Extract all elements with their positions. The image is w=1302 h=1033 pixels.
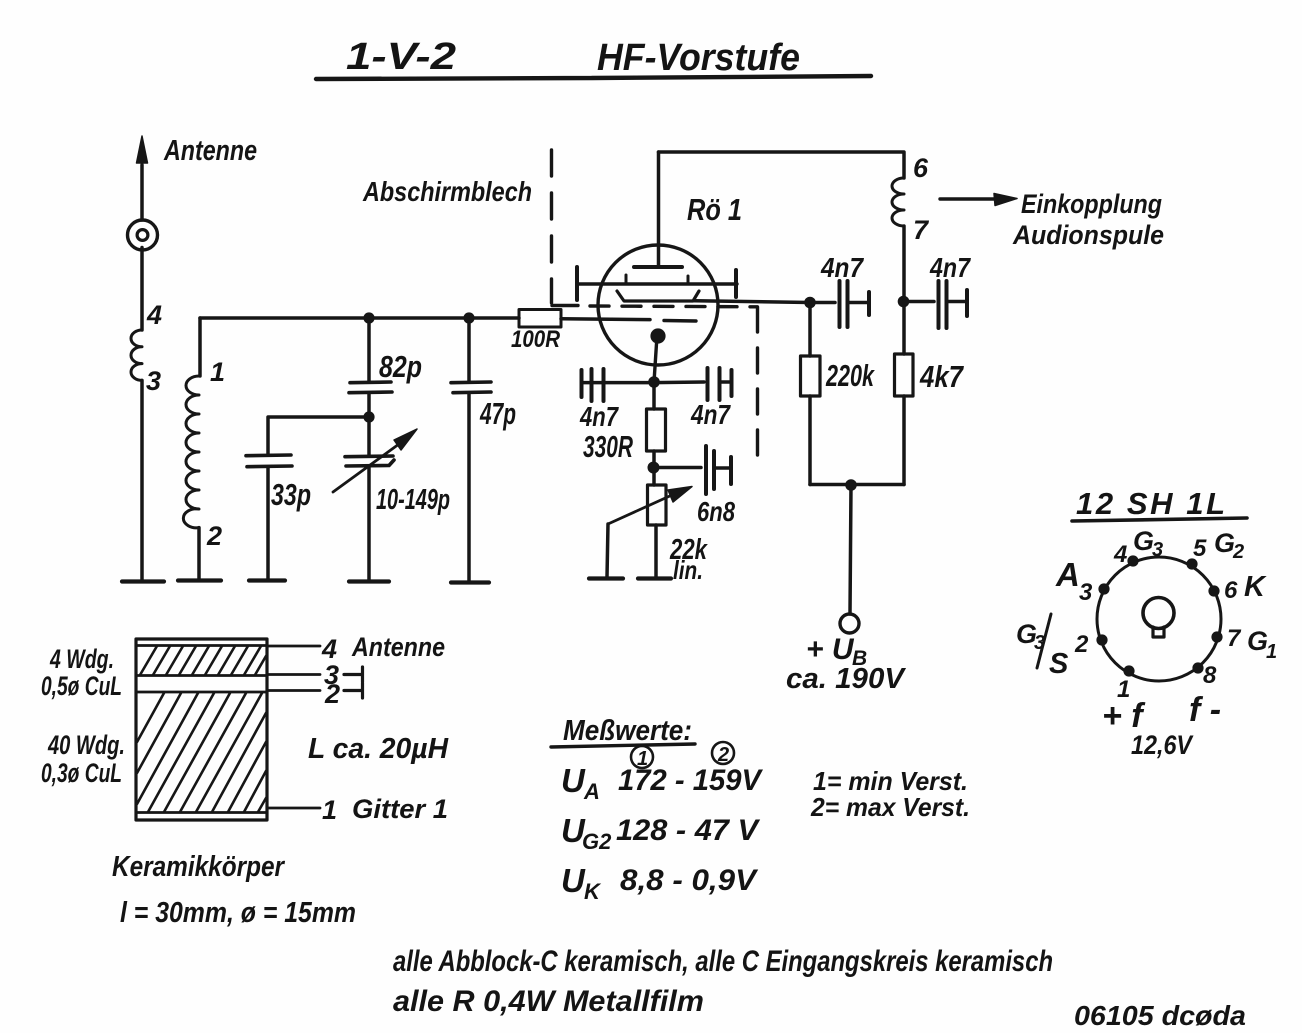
variable capacitor 10-149p — [367, 417, 371, 456]
svg-text:2: 2 — [717, 744, 729, 766]
wire varcap to ground — [367, 466, 371, 581]
audion coil L2 — [892, 178, 904, 226]
svg-text:2: 2 — [1074, 631, 1089, 658]
pin label 6 K — [1224, 571, 1267, 604]
svg-text:K: K — [584, 879, 602, 904]
title HF-Vorstufe — [597, 37, 800, 79]
svg-text:HF-Vorstufe: HF-Vorstufe — [597, 37, 800, 79]
svg-text:6n8: 6n8 — [697, 496, 735, 527]
node 47p junction — [463, 312, 474, 323]
svg-text:8,8 - 0,9V: 8,8 - 0,9V — [620, 864, 759, 897]
tube U1 Ro1 envelope — [598, 245, 718, 365]
svg-text:A: A — [1055, 556, 1080, 593]
svg-text:U: U — [561, 762, 586, 799]
label 4 Wdg 0,5 CuL — [49, 644, 114, 674]
svg-text:6: 6 — [1224, 577, 1238, 604]
svg-text:4n7: 4n7 — [579, 401, 619, 432]
Messwerte heading — [563, 715, 692, 747]
wire 47p to ground — [467, 393, 471, 582]
coil L1b wire top — [198, 318, 202, 376]
cathode lead down — [654, 336, 657, 382]
svg-text:Audionspule: Audionspule — [1012, 220, 1164, 250]
bottom join wire — [810, 483, 904, 487]
main wire top bus — [200, 316, 519, 320]
svg-text:f -: f - — [1189, 691, 1221, 729]
doc number — [1074, 1000, 1246, 1031]
tap 3 line — [267, 673, 320, 676]
capacitor 4n7 out-right — [904, 300, 935, 304]
g2 tick left — [625, 275, 628, 284]
top wire anode to coil — [659, 152, 905, 178]
screen grid g2 line — [577, 282, 737, 285]
svg-text:5: 5 — [1193, 535, 1207, 562]
svg-text:7: 7 — [1227, 625, 1242, 652]
tap 2 label — [324, 679, 340, 709]
antenna connector circle — [128, 220, 158, 250]
former line under band1 — [136, 674, 267, 677]
svg-text:0,3ø CuL: 0,3ø CuL — [41, 758, 122, 788]
wire to UB terminal — [850, 485, 851, 614]
pin 7 dot — [1211, 631, 1222, 642]
einkopplung arrow — [940, 197, 998, 200]
former line above band2 — [136, 691, 267, 694]
pin label 1 — [1117, 676, 1130, 703]
svg-text:33p: 33p — [271, 477, 311, 512]
pin 6 dot — [1208, 585, 1219, 596]
g3 line with slanted ends — [617, 291, 699, 301]
former top inner line — [136, 644, 267, 647]
capacitor 6n8 — [654, 466, 702, 470]
tap 2 line — [267, 689, 320, 692]
svg-text:40 Wdg.: 40 Wdg. — [47, 730, 125, 760]
svg-text:3: 3 — [146, 366, 161, 396]
node UB — [845, 479, 857, 491]
pin 5 dot — [1186, 558, 1197, 569]
note line 1 — [393, 945, 1053, 978]
row UA — [561, 762, 764, 804]
pin label 2 — [1074, 631, 1089, 658]
label 2 — [206, 521, 222, 551]
svg-text:U: U — [561, 862, 586, 899]
socket center hole — [1143, 598, 1174, 629]
svg-text:172 - 159V: 172 - 159V — [618, 764, 764, 797]
node output right — [898, 296, 910, 308]
label 1 — [210, 357, 225, 387]
G3/S slash — [1037, 614, 1051, 668]
tap 1 label Gitter1 — [322, 794, 448, 825]
antenna arrow — [141, 146, 144, 165]
svg-text:10-149p: 10-149p — [376, 484, 450, 516]
svg-text:+ U: + U — [806, 633, 855, 666]
svg-text:82p: 82p — [379, 349, 422, 384]
wire 330R to node — [652, 451, 656, 467]
g2 tick right — [687, 276, 690, 284]
pin label 7 G1 — [1227, 625, 1277, 663]
note line 2 — [393, 985, 704, 1018]
antenna coil L1a — [131, 330, 142, 380]
svg-text:alle Abblock-C keramisch, alle: alle Abblock-C keramisch, alle C Eingang… — [393, 945, 1053, 978]
svg-text:G: G — [1133, 526, 1154, 556]
label Einkopplung — [1021, 189, 1162, 219]
label 7 — [913, 215, 930, 245]
svg-text:G2: G2 — [582, 829, 612, 854]
socket title underline — [1072, 518, 1247, 521]
pin label A 3 — [1055, 556, 1093, 606]
svg-text:12,6V: 12,6V — [1131, 730, 1194, 760]
pin label G3/S — [1016, 619, 1069, 680]
svg-text:L ca. 20µH: L ca. 20µH — [308, 733, 449, 765]
node below 82p — [363, 411, 374, 422]
resistor 330R — [652, 382, 656, 409]
svg-text:Antenne: Antenne — [351, 632, 445, 662]
svg-text:128 - 47 V: 128 - 47 V — [616, 814, 761, 847]
capacitor 4n7 cathode-right — [706, 368, 710, 400]
label 3 — [146, 366, 161, 396]
socket circle — [1097, 557, 1221, 681]
svg-text:G: G — [1214, 528, 1235, 558]
wire coil down — [902, 226, 906, 301]
svg-text:1: 1 — [1266, 641, 1277, 663]
wiper tail wire — [607, 524, 608, 577]
svg-text:Antenne: Antenne — [163, 135, 257, 167]
svg-text:alle R 0,4W Metallfilm: alle R 0,4W Metallfilm — [393, 985, 704, 1018]
svg-text:Keramikkörper: Keramikkörper — [112, 851, 285, 883]
socket title 12 SH 1L — [1076, 486, 1225, 521]
svg-text:G: G — [1247, 626, 1268, 656]
wire cathode bus — [582, 380, 704, 384]
ground coil — [178, 578, 221, 582]
shield dashed corner — [552, 304, 578, 307]
former bottom inner line — [136, 811, 267, 814]
svg-text:12 SH 1L: 12 SH 1L — [1076, 486, 1225, 521]
svg-text:1: 1 — [322, 795, 337, 825]
anode plate — [634, 265, 682, 269]
label L ca 20uH — [308, 733, 449, 765]
svg-text:3: 3 — [1152, 539, 1163, 561]
shield dashed left vertical — [550, 150, 553, 303]
label 12,6V — [1131, 730, 1194, 760]
ground varcap — [349, 579, 389, 583]
g1 dash inside tube — [664, 319, 696, 323]
pin label 8 — [1203, 662, 1217, 689]
resistor 100R — [519, 310, 561, 328]
shield dashed right vertical — [756, 307, 759, 457]
pin 3 dot — [1098, 583, 1109, 594]
svg-text:ca. 190V: ca. 190V — [786, 663, 907, 695]
svg-text:6: 6 — [913, 153, 929, 183]
svg-text:4n7: 4n7 — [820, 252, 864, 283]
svg-text:l = 30mm, ø = 15mm: l = 30mm, ø = 15mm — [120, 897, 356, 929]
capacitor 4n7 out-left — [810, 301, 835, 305]
label 6 — [913, 153, 929, 183]
anode lead wire — [657, 152, 661, 267]
potentiometer 22k — [652, 468, 656, 486]
svg-text:2: 2 — [324, 679, 340, 709]
wire to 33p — [268, 417, 369, 455]
svg-text:Abschirmblech: Abschirmblech — [362, 176, 532, 207]
capacitor 4n7 cathode-left — [590, 369, 594, 401]
g2 left end bar — [575, 267, 579, 300]
coil former body — [136, 639, 267, 820]
tap 4 label Antenne — [321, 632, 445, 664]
capacitor 82p — [367, 318, 371, 382]
Messwerte underline — [551, 744, 695, 747]
tap 3 lug — [344, 667, 363, 682]
former hatched band 1 — [140, 646, 266, 675]
cathode node — [648, 376, 660, 388]
wire 82p to node — [367, 393, 371, 417]
resistor 4k7 — [902, 302, 906, 355]
node 330R/22k — [648, 462, 660, 474]
label Abschirmblech — [362, 176, 532, 207]
svg-text:A: A — [583, 779, 600, 804]
pin 2 dot — [1096, 634, 1107, 645]
svg-text:K: K — [1244, 571, 1267, 603]
circled 1 — [631, 746, 653, 768]
g2 right end bar — [734, 270, 738, 297]
capacitor 47p — [467, 318, 471, 382]
svg-text:1-V-2: 1-V-2 — [346, 36, 456, 78]
pin 4 dot — [1127, 555, 1138, 566]
svg-text:S: S — [1049, 648, 1069, 680]
row UG2 — [561, 812, 761, 854]
label ca. 190V — [786, 663, 907, 695]
node 82p junction — [363, 312, 374, 323]
pot wiper arrow — [608, 495, 672, 524]
tap 2 lug — [344, 683, 363, 698]
ground 33p — [249, 578, 285, 582]
ground 47p — [451, 580, 489, 584]
svg-text:1: 1 — [210, 357, 225, 387]
svg-text:Rö 1: Rö 1 — [687, 192, 742, 227]
row UK — [561, 862, 759, 904]
svg-text:2: 2 — [1232, 541, 1244, 563]
label 40 Wdg 0,3 CuL — [47, 730, 125, 760]
svg-text:06105 dcøda: 06105 dcøda — [1074, 1000, 1246, 1031]
svg-text:47p: 47p — [479, 396, 516, 431]
label l=30mm d=15mm — [120, 897, 356, 929]
label +UB — [806, 633, 867, 670]
pin 8 dot — [1192, 662, 1203, 673]
shield dashed through tube — [590, 304, 757, 308]
svg-text:2= max Verst.: 2= max Verst. — [810, 792, 970, 822]
pin 1 dot — [1123, 665, 1134, 676]
svg-text:100R: 100R — [511, 326, 561, 353]
svg-text:Einkopplung: Einkopplung — [1021, 189, 1162, 219]
label f- — [1189, 691, 1221, 729]
cathode dot — [650, 328, 665, 343]
svg-text:4: 4 — [1113, 541, 1127, 568]
svg-text:220k: 220k — [825, 358, 875, 393]
tap 3 label — [324, 660, 339, 690]
svg-text:2: 2 — [206, 521, 222, 551]
ground 22k — [638, 576, 671, 580]
label Antenne — [163, 135, 257, 167]
ground wiper — [589, 576, 623, 580]
svg-text:0,5ø CuL: 0,5ø CuL — [41, 671, 122, 701]
svg-text:4n7: 4n7 — [929, 252, 971, 283]
socket keyway — [1153, 627, 1164, 637]
wire antenna lower — [140, 380, 144, 581]
wire 100R to grid — [561, 317, 650, 321]
tap 4 line — [267, 645, 320, 648]
capacitor 33p — [246, 453, 291, 457]
label Keramikkoerper — [112, 851, 285, 883]
svg-text:lin.: lin. — [673, 555, 703, 585]
circled 2 — [712, 742, 734, 764]
coil L1b wire bottom — [197, 528, 201, 580]
label 4 — [146, 300, 162, 330]
node output left — [804, 297, 816, 309]
svg-text:330R: 330R — [583, 429, 633, 464]
coil L1b — [183, 376, 199, 528]
resistor 220k — [808, 303, 812, 357]
svg-text:7: 7 — [913, 215, 930, 245]
UB terminal circle — [840, 614, 859, 633]
wire g3 to right network — [695, 301, 810, 303]
wire antenna to coil — [140, 248, 144, 331]
legend min/max — [813, 766, 968, 796]
ground antenna — [122, 579, 164, 583]
pin label 4 G3 — [1113, 526, 1163, 568]
svg-text:4: 4 — [146, 300, 162, 330]
svg-text:Meßwerte:: Meßwerte: — [563, 715, 692, 747]
svg-text:4k7: 4k7 — [919, 359, 964, 394]
label +f — [1102, 697, 1146, 735]
pin label 5 G2 — [1193, 528, 1244, 563]
svg-text:8: 8 — [1203, 662, 1217, 689]
label Ro 1 — [687, 192, 742, 227]
wire antenna upper — [140, 165, 144, 220]
svg-text:3: 3 — [1079, 579, 1093, 606]
svg-text:4n7: 4n7 — [690, 399, 731, 430]
wire 33p to ground — [266, 467, 270, 580]
former hatched band 2 — [137, 693, 266, 812]
title underline — [316, 76, 871, 79]
title 1-V-2 — [346, 36, 456, 78]
tap 1 line — [267, 807, 320, 810]
svg-text:Gitter 1: Gitter 1 — [352, 794, 448, 824]
svg-text:4 Wdg.: 4 Wdg. — [49, 644, 114, 674]
label Audionspule — [1012, 220, 1164, 250]
